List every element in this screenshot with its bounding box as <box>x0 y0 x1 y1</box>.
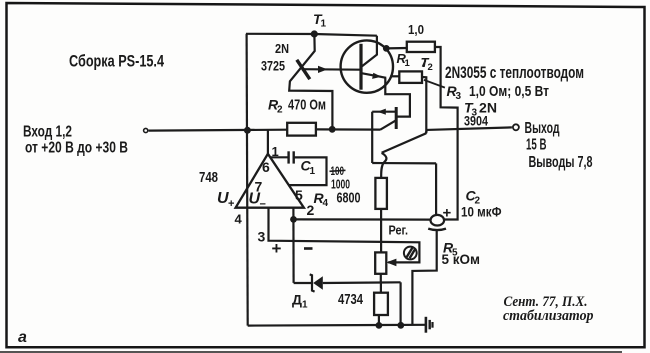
svg-text:3725: 3725 <box>261 58 285 74</box>
node: T1 collector junction <box>311 30 318 37</box>
svg-text:Д: Д <box>292 292 302 308</box>
wire: pin 3 down and sense line to wiper loop <box>269 208 420 263</box>
label T3 2N / 3904 <box>464 100 497 129</box>
label: Вход 1,2 / от +20 В до +30 В <box>23 124 128 157</box>
label C1 <box>301 158 316 178</box>
node: divider ground junction <box>376 322 383 329</box>
ground rail <box>248 324 426 327</box>
label R1 <box>397 51 411 69</box>
label − <box>304 247 313 250</box>
arrowhead into potentiometer <box>386 259 396 267</box>
svg-text:а: а <box>18 329 27 346</box>
svg-text:5 кОм: 5 кОм <box>442 252 481 267</box>
handwritten note <box>503 294 594 324</box>
transistor T1 2N3725 (diagonal with cross) <box>289 36 332 129</box>
label Д1 <box>292 292 308 311</box>
svg-text:+: + <box>272 239 282 258</box>
svg-text:Выход: Выход <box>525 120 560 137</box>
svg-text:2N3055 с теплоотводом: 2N3055 с теплоотводом <box>445 64 584 82</box>
leader line T2 callout <box>423 60 426 66</box>
svg-text:2N: 2N <box>275 41 289 56</box>
svg-text:1,0: 1,0 <box>408 22 424 37</box>
svg-text:5: 5 <box>295 187 303 203</box>
svg-text:+: + <box>228 198 234 210</box>
label U+ <box>217 190 234 210</box>
svg-text:−: − <box>260 199 266 211</box>
capacitor C1 with loop to pin 5 <box>270 151 327 185</box>
wire: pin 2 vertical down <box>292 208 294 283</box>
wire: pot bottom to zener rail <box>380 274 382 283</box>
svg-text:6: 6 <box>262 159 270 175</box>
wire: R3 right stub down to output <box>422 77 426 133</box>
label R2 470 Ом <box>268 97 326 116</box>
wire: output diagonal and output rail <box>382 127 512 152</box>
svg-text:1: 1 <box>405 58 411 69</box>
ground symbol <box>426 317 433 333</box>
svg-text:3904: 3904 <box>464 113 488 129</box>
svg-text:1: 1 <box>302 300 308 311</box>
label Выход 15 В Выводы 7,8 <box>525 120 593 171</box>
svg-text:от +20 В до +30 В: от +20 В до +30 В <box>25 140 128 157</box>
node: pin 2 output junction <box>290 216 297 223</box>
svg-text:6800: 6800 <box>337 191 361 207</box>
potentiometer R5 box <box>375 252 386 273</box>
zener diode D1 4734 <box>294 274 401 291</box>
label R5 5 кОм <box>442 240 481 268</box>
wire: hop squiggle from output diagonal to resistor <box>381 153 386 178</box>
leader line R3 callout <box>424 80 445 88</box>
svg-text:4: 4 <box>323 198 329 209</box>
pin labels <box>235 144 315 245</box>
wire: apex drop from input rail <box>267 130 269 154</box>
svg-text:7: 7 <box>255 179 263 195</box>
wire: dot to R1 <box>386 47 407 50</box>
svg-text:1: 1 <box>310 166 316 177</box>
svg-text:4734: 4734 <box>338 292 363 308</box>
label C2 10 мкФ <box>461 188 502 220</box>
svg-text:15 В: 15 В <box>526 137 547 154</box>
label T2 <box>421 55 433 73</box>
svg-text:3: 3 <box>258 229 266 245</box>
wire: top rail <box>246 34 377 36</box>
svg-text:Вход 1,2: Вход 1,2 <box>23 124 72 141</box>
wire: input to node A <box>149 129 287 132</box>
svg-text:3: 3 <box>456 91 462 102</box>
svg-text:Рег.: Рег. <box>389 223 409 238</box>
svg-text:470 Ом: 470 Ом <box>288 97 326 114</box>
resistor R1 box <box>407 42 435 52</box>
resistor R2 box <box>287 123 316 136</box>
wire: T2 emitter Z-path to T3 collector <box>385 78 410 117</box>
wire: left vertical (node A up to top rail, down through op-amp pin 4 to ground rail) <box>247 34 248 326</box>
svg-text:748: 748 <box>199 169 218 186</box>
wire: op-amp output to C2 <box>294 218 431 220</box>
wire: resistor to pot <box>380 209 382 253</box>
svg-text:Сборка PS-15.4: Сборка PS-15.4 <box>69 51 164 70</box>
wire: divider chain top (T3 emitter node to C2 top) <box>372 162 436 165</box>
resistor (divider upper) <box>375 178 387 209</box>
svg-text:4: 4 <box>235 212 243 227</box>
label 2N 3725 <box>261 41 289 74</box>
resistor R3 box <box>399 71 422 83</box>
wire: lower resistor to ground rail <box>378 315 380 326</box>
output terminal <box>513 124 519 130</box>
label 100 (struck) 1000 6800 <box>331 166 361 207</box>
svg-text:10 мкФ: 10 мкФ <box>461 205 502 220</box>
input terminal <box>144 128 148 132</box>
op-amp U1 748 triangle <box>236 154 304 208</box>
wire: emitter to R3 <box>390 75 399 77</box>
svg-text:2: 2 <box>277 105 283 116</box>
screw adjuster symbol <box>404 247 417 260</box>
wire: zener rail down to ground rail <box>400 282 402 325</box>
node B (R2/T3 base junction) <box>329 126 336 133</box>
node: zener ground junction <box>397 322 404 329</box>
svg-text:1,0 Ом; 0,5 Вт: 1,0 Ом; 0,5 Вт <box>469 83 549 100</box>
transistor T3 2N3904 <box>372 107 396 163</box>
svg-text:Выводы 7,8: Выводы 7,8 <box>529 154 593 171</box>
resistor (divider lower) <box>374 293 388 315</box>
svg-text:1: 1 <box>321 19 327 30</box>
wire: stub to lower resistor <box>380 282 382 292</box>
wire: R2 right to node B <box>316 128 381 130</box>
svg-text:2: 2 <box>428 62 433 73</box>
label R4 <box>314 190 329 209</box>
svg-text:1000: 1000 <box>331 177 350 192</box>
label U- <box>249 191 266 211</box>
node A (input junction) <box>244 127 251 134</box>
svg-text:стабилизатор: стабилизатор <box>503 308 594 324</box>
transistor T2 2N3055 (big circle) <box>302 36 393 93</box>
svg-text:+: + <box>443 205 452 222</box>
label T1 <box>313 11 327 30</box>
label R3 1,0 Ом; 0,5 Вт <box>447 83 550 102</box>
capacitor C2 electrolytic <box>412 163 446 324</box>
wire: R1 right down to C2 plus <box>435 47 458 220</box>
node: T2 collector dot <box>383 45 390 52</box>
